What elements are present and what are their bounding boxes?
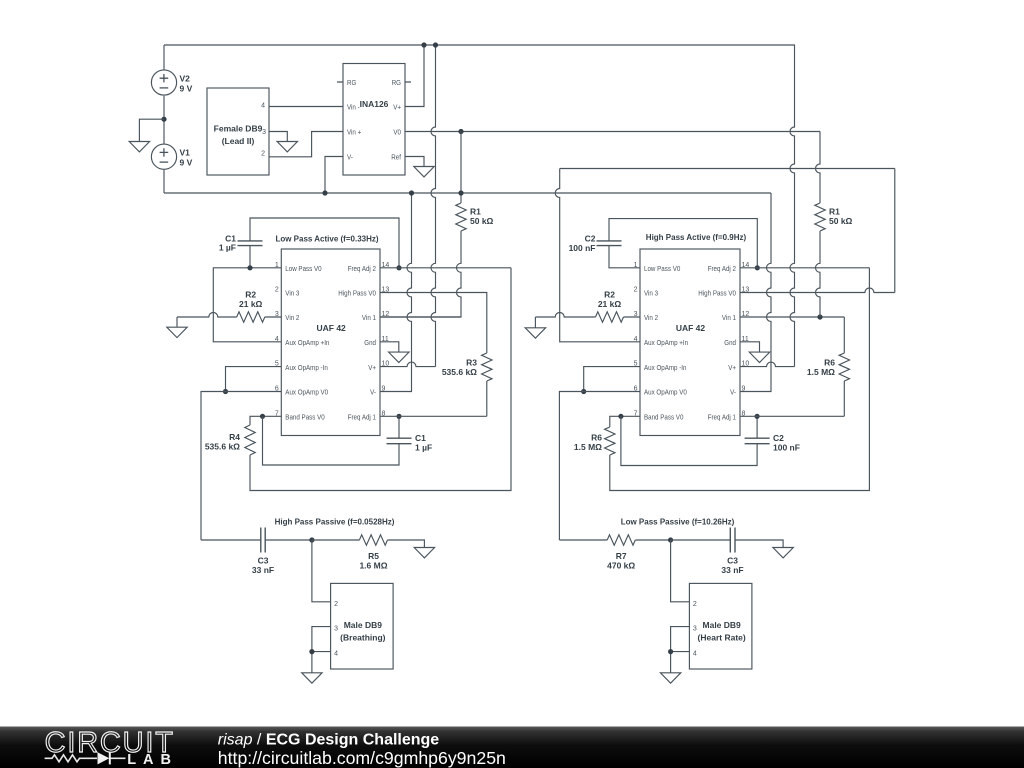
wire right V+ vertical (top rail to pin10) (790, 45, 795, 367)
junction C1 bottom on pin1 (247, 265, 252, 270)
wire bottom-left feed (201, 539, 260, 541)
wire right pin7 to R6 (610, 416, 640, 427)
wire right pin13 line (740, 288, 895, 293)
svg-text:Gnd: Gnd (724, 338, 736, 347)
wire R7 to node (635, 539, 670, 541)
junction left R1 on -9V rail (458, 190, 463, 195)
svg-text:LAB: LAB (127, 752, 178, 768)
junction left V+ on top rail (433, 42, 438, 47)
svg-text:V-: V- (730, 388, 736, 397)
svg-text:50 kΩ: 50 kΩ (470, 216, 494, 226)
ground at right C3 (773, 548, 793, 558)
svg-text:11: 11 (382, 336, 389, 343)
junction V0 to left R1 (458, 129, 463, 134)
svg-text:535.6 kΩ: 535.6 kΩ (205, 442, 240, 452)
wire C2 bottom to pin8 (756, 416, 758, 438)
svg-text:535.6 kΩ: 535.6 kΩ (442, 367, 477, 377)
svg-text:4: 4 (261, 103, 265, 110)
svg-text:Vin 1: Vin 1 (362, 313, 376, 322)
wire DB9 pin4 to INA126 Vin- (269, 106, 343, 108)
junction INA126 V+ on top rail (421, 42, 426, 47)
junction left V- on rail (409, 190, 414, 195)
wire C3 to ground (735, 540, 783, 548)
svg-text:21 kΩ: 21 kΩ (239, 299, 263, 309)
wire left pin14 line (380, 267, 511, 269)
resistor R2 (left) (237, 312, 265, 322)
svg-text:2: 2 (693, 601, 697, 608)
wire right pin6 out (559, 392, 640, 541)
wire left pin12 line (380, 316, 461, 318)
svg-text:21 kΩ: 21 kΩ (598, 299, 622, 309)
svg-text:Male DB9: Male DB9 (344, 620, 383, 630)
svg-text:V0: V0 (393, 128, 401, 137)
svg-text:C2: C2 (773, 433, 784, 443)
svg-text:http://circuitlab.com/c9gmhp6y: http://circuitlab.com/c9gmhp6y9n25n (218, 748, 506, 768)
junction left pin5/pin6 (223, 389, 228, 394)
svg-text:RG: RG (347, 78, 357, 87)
svg-text:Low Pass Passive (f=10.26Hz): Low Pass Passive (f=10.26Hz) (621, 518, 735, 527)
wire left pin8 line (380, 415, 487, 417)
wire DB9-heart pin4 (671, 652, 690, 673)
svg-text:Ref: Ref (391, 153, 401, 162)
svg-text:4: 4 (275, 336, 279, 343)
wire node to DB9-heart pin2 (671, 540, 690, 602)
op-amp U3 (high pass) UAF42 box (640, 249, 740, 436)
svg-text:3: 3 (693, 626, 697, 633)
resistor R6 (upper) (839, 353, 849, 381)
svg-text:Vin +: Vin + (347, 128, 361, 137)
wire left C1-bottom loop (263, 416, 400, 465)
resistor R6 (lower) (605, 427, 615, 455)
ground at right R2 (525, 328, 545, 338)
svg-text:100 nF: 100 nF (569, 243, 596, 253)
wire right R2 to pin3 (624, 316, 641, 318)
svg-text:8: 8 (742, 410, 746, 417)
svg-text:5: 5 (634, 361, 638, 368)
svg-text:10: 10 (382, 361, 390, 368)
svg-text:4: 4 (693, 651, 697, 658)
resistor R3 (482, 353, 492, 381)
wire R4 to pin14 loop (250, 268, 511, 491)
svg-text:R1: R1 (829, 207, 840, 217)
svg-text:33 nF: 33 nF (252, 565, 274, 575)
wire C2 top loop (609, 219, 757, 268)
svg-text:UAF 42: UAF 42 (676, 323, 706, 333)
ground at DB9 pin3 (277, 142, 297, 152)
svg-text:1.5 MΩ: 1.5 MΩ (807, 367, 835, 377)
svg-text:Band Pass V0: Band Pass V0 (644, 413, 683, 422)
wire left pin13 line to R3 (380, 293, 487, 354)
wire left pin3 to ground (177, 313, 237, 328)
wire R6 upper leads (843, 317, 845, 416)
wire right pin8 line to R6 (740, 415, 844, 417)
svg-text:risap / ECG Design Challenge: risap / ECG Design Challenge (218, 732, 439, 749)
resistor R7 (607, 535, 635, 545)
junction DB9-heart pin3/4 (668, 649, 673, 654)
svg-text:R7: R7 (616, 551, 627, 561)
junction right pin7 node (618, 414, 623, 419)
wire node to DB9-breathing pin2 (312, 540, 331, 602)
junction V1-V2 midpoint (161, 117, 166, 122)
svg-text:V1: V1 (180, 148, 191, 158)
svg-text:11: 11 (742, 336, 749, 343)
wire +9V top rail (164, 44, 795, 46)
wire INA126 V- to -9V rail (325, 157, 343, 194)
svg-text:4: 4 (334, 651, 338, 658)
svg-text:Freq Adj 1: Freq Adj 1 (708, 413, 736, 422)
svg-text:3: 3 (634, 311, 638, 318)
svg-text:V-: V- (347, 153, 353, 162)
svg-text:R1: R1 (470, 207, 481, 217)
wire left pins1-4 rail (213, 268, 281, 342)
svg-text:7: 7 (275, 410, 279, 417)
voltage source V2 (151, 70, 176, 95)
svg-text:Low Pass Active (f=0.33Hz): Low Pass Active (f=0.33Hz) (275, 235, 378, 244)
junction right pin5/pin6 (581, 389, 586, 394)
svg-text:1.6 MΩ: 1.6 MΩ (359, 561, 387, 571)
svg-text:Vin 3: Vin 3 (285, 289, 299, 298)
ground at left R2 (167, 327, 187, 337)
ground at right pin11 (749, 352, 769, 362)
svg-text:7: 7 (634, 410, 638, 417)
capacitor C3 (left) (260, 528, 262, 553)
svg-text:R6: R6 (591, 433, 602, 443)
svg-text:Male DB9: Male DB9 (703, 620, 742, 630)
connector J3 Male DB9 (Heart Rate) (689, 583, 752, 669)
svg-text:Aux OpAmp -In: Aux OpAmp -In (285, 363, 328, 372)
wire -9V bottom rail (164, 192, 771, 194)
svg-text:3: 3 (334, 626, 338, 633)
wire ground stub at sources (139, 119, 164, 141)
wire left pin5 jog (226, 367, 282, 392)
svg-text:High Pass V0: High Pass V0 (698, 289, 736, 298)
svg-text:Vin 2: Vin 2 (285, 313, 299, 322)
svg-text:RG: RG (392, 78, 402, 87)
resistor R4 (245, 425, 255, 455)
wire left R1 to pin12 (380, 231, 461, 317)
svg-text:50 kΩ: 50 kΩ (829, 216, 853, 226)
svg-text:9 V: 9 V (180, 158, 193, 168)
ground at INA126 Ref (414, 167, 434, 177)
svg-text:Vin 3: Vin 3 (644, 289, 658, 298)
wire INA126 V+ to +9V rail (405, 45, 424, 107)
svg-text:9: 9 (742, 386, 746, 393)
svg-text:2: 2 (261, 151, 265, 158)
svg-text:8: 8 (382, 410, 386, 417)
wire right R1 vertical (816, 132, 821, 204)
svg-text:(Lead II): (Lead II) (222, 136, 255, 146)
junction C1 loop on pin14 (396, 265, 401, 270)
svg-text:Aux OpAmp +In: Aux OpAmp +In (285, 338, 329, 347)
resistor R2 (right) (596, 312, 624, 322)
wire left V- vertical (rail to pin9) (380, 193, 412, 392)
svg-text:R2: R2 (245, 290, 256, 300)
svg-text:100 nF: 100 nF (773, 443, 800, 453)
wire right pin12 line (740, 316, 844, 318)
wire right V- vertical (rail to pin9) (740, 193, 771, 392)
svg-text:C2: C2 (585, 234, 596, 244)
svg-text:1 µF: 1 µF (219, 243, 236, 253)
svg-text:V2: V2 (180, 74, 191, 84)
wire DB9 pin2 to INA126 Vin+ (269, 132, 343, 157)
resistor R5 (359, 535, 387, 545)
resistor R1 (right) (815, 203, 825, 231)
pin stubs INA126 RG (337, 81, 411, 83)
ground at V1/V2 midpoint (129, 142, 149, 152)
svg-text:UAF 42: UAF 42 (317, 323, 347, 333)
wire DB9-breathing pin3 jog (312, 627, 331, 652)
svg-text:Aux OpAmp V0: Aux OpAmp V0 (644, 388, 687, 397)
wire DB9 pin3 ground stub (269, 132, 287, 142)
wire bottom-right feed (559, 539, 607, 541)
wire feedback line y168 (560, 168, 895, 170)
wire R3 to pin8 (486, 381, 488, 416)
junction C2 on pin8 (755, 414, 760, 419)
svg-text:(Heart Rate): (Heart Rate) (698, 633, 746, 643)
capacitor C1 (bottom left) (387, 437, 412, 439)
svg-text:13: 13 (742, 287, 750, 294)
svg-text:V+: V+ (368, 363, 376, 372)
svg-text:Aux OpAmp -In: Aux OpAmp -In (644, 363, 687, 372)
svg-text:C1: C1 (415, 433, 426, 443)
svg-text:6: 6 (275, 386, 279, 393)
resistor R1 (left) (456, 203, 466, 231)
svg-text:C3: C3 (727, 556, 738, 566)
ground at DB9-breathing (302, 673, 322, 683)
capacitor C2 (top right) (597, 240, 622, 242)
svg-text:10: 10 (742, 361, 750, 368)
logo diode (98, 752, 110, 764)
op-amp U2 (low pass) UAF42 box (281, 249, 380, 436)
junction C1 on pin8 (396, 414, 401, 419)
wire left V+ vertical (top rail to pin10) (431, 45, 436, 367)
svg-text:14: 14 (382, 262, 390, 269)
svg-text:V+: V+ (728, 363, 736, 372)
voltage source V1 (151, 144, 176, 169)
ground at R5 (414, 548, 434, 558)
svg-text:Vin 2: Vin 2 (644, 313, 658, 322)
svg-text:Low Pass V0: Low Pass V0 (644, 264, 680, 273)
svg-text:3: 3 (262, 129, 266, 136)
wire right C2-bottom loop (621, 416, 757, 465)
svg-text:12: 12 (742, 311, 750, 318)
wire DB9-heart pin3 jog (671, 627, 690, 652)
junction bottom-left node (309, 537, 314, 542)
wire R5 to ground (388, 540, 425, 548)
capacitor C3 (right) (729, 528, 731, 553)
wire C1 top loop (250, 218, 399, 268)
svg-text:2: 2 (634, 287, 638, 294)
svg-text:R6: R6 (824, 358, 835, 368)
wire DB9-breathing pin4 (312, 652, 331, 673)
junction left pin7 node (260, 414, 265, 419)
wire right pin3 to ground (535, 313, 595, 328)
svg-text:Low Pass V0: Low Pass V0 (285, 264, 321, 273)
capacitor C1 (top left) (238, 240, 263, 242)
wire C1 bottom to pin8 (398, 416, 400, 438)
svg-text:1: 1 (275, 262, 279, 269)
svg-text:Freq Adj 1: Freq Adj 1 (348, 413, 376, 422)
svg-text:33 nF: 33 nF (721, 565, 743, 575)
svg-text:C3: C3 (258, 556, 269, 566)
footer bar (0, 727, 1024, 768)
op-amp U1 INA126 (343, 64, 405, 176)
junction DB9-breathing pin3/4 (309, 649, 314, 654)
junction C2 loop on pin14 (755, 265, 760, 270)
svg-text:1: 1 (634, 262, 638, 269)
svg-text:1 µF: 1 µF (415, 443, 432, 453)
svg-text:9: 9 (382, 386, 386, 393)
svg-text:12: 12 (382, 311, 390, 318)
svg-text:470 kΩ: 470 kΩ (607, 561, 635, 571)
svg-text:Vin 1: Vin 1 (722, 313, 736, 322)
svg-text:3: 3 (275, 311, 279, 318)
svg-text:V+: V+ (393, 103, 401, 112)
svg-text:R2: R2 (604, 290, 615, 300)
svg-text:5: 5 (275, 361, 279, 368)
wire C3 to node (266, 539, 312, 541)
wire INA126 Ref ground stub (405, 157, 424, 167)
wire right pins rail x560 (555, 169, 640, 342)
svg-text:9 V: 9 V (180, 84, 193, 94)
capacitor C2 (bottom right) (745, 437, 770, 439)
svg-text:Aux OpAmp +In: Aux OpAmp +In (644, 338, 688, 347)
wire node to R5 (312, 539, 360, 541)
wire node to C3 (671, 539, 730, 541)
svg-text:R3: R3 (466, 358, 477, 368)
wire right R1 to pin12 (816, 231, 821, 317)
svg-text:Freq Adj 2: Freq Adj 2 (348, 264, 376, 273)
wire R2 to pin3 (265, 316, 282, 318)
wire left pin11 gnd stub (380, 342, 399, 352)
svg-text:1.5 MΩ: 1.5 MΩ (574, 442, 602, 452)
svg-text:INA126: INA126 (360, 99, 389, 109)
svg-text:Female DB9: Female DB9 (214, 124, 263, 134)
svg-text:High Pass V0: High Pass V0 (338, 289, 376, 298)
wire right pin5 jog (584, 367, 640, 392)
wire right pin10 line (740, 362, 795, 367)
junction right R1 on pin12 (817, 314, 822, 319)
svg-text:2: 2 (275, 287, 279, 294)
connector J1 Female DB9 (207, 88, 269, 175)
connector J2 Male DB9 (Breathing) (331, 583, 394, 669)
svg-text:High Pass Passive (f=0.0528Hz): High Pass Passive (f=0.0528Hz) (275, 518, 395, 527)
svg-text:14: 14 (742, 262, 750, 269)
svg-text:4: 4 (634, 336, 638, 343)
wire R6 to pin14 loop (610, 268, 870, 491)
svg-text:Band Pass V0: Band Pass V0 (285, 413, 324, 422)
wire right pin13 riser x894 (894, 169, 896, 293)
svg-text:2: 2 (334, 601, 338, 608)
svg-text:6: 6 (634, 386, 638, 393)
svg-text:Gnd: Gnd (364, 338, 376, 347)
junction bottom-right node (668, 537, 673, 542)
svg-text:Aux OpAmp V0: Aux OpAmp V0 (285, 388, 328, 397)
svg-text:Freq Adj 2: Freq Adj 2 (708, 264, 736, 273)
wire V1/V2 column (163, 45, 165, 193)
junction INA126 V- on rail (322, 190, 327, 195)
wire left R1 vertical (460, 132, 462, 204)
svg-text:13: 13 (382, 287, 390, 294)
ground at DB9-heart (660, 673, 680, 683)
wire right pin11 gnd stub (740, 342, 760, 352)
node V0 - INA126 output line (405, 131, 820, 133)
svg-text:R5: R5 (368, 551, 379, 561)
svg-text:V-: V- (370, 388, 376, 397)
ground at left pin11 (389, 352, 409, 362)
wire right pin14 line (740, 267, 869, 269)
svg-text:High Pass Active (f=0.9Hz): High Pass Active (f=0.9Hz) (646, 233, 747, 242)
wire left pin6 out (201, 392, 281, 541)
wire left pin10 line (380, 362, 436, 367)
svg-text:(Breathing): (Breathing) (340, 633, 386, 643)
logo wire and resistor (45, 755, 126, 762)
wire left pin7 to R4 (250, 416, 281, 425)
svg-text:Vin -: Vin - (347, 103, 360, 112)
svg-text:R4: R4 (229, 432, 240, 442)
